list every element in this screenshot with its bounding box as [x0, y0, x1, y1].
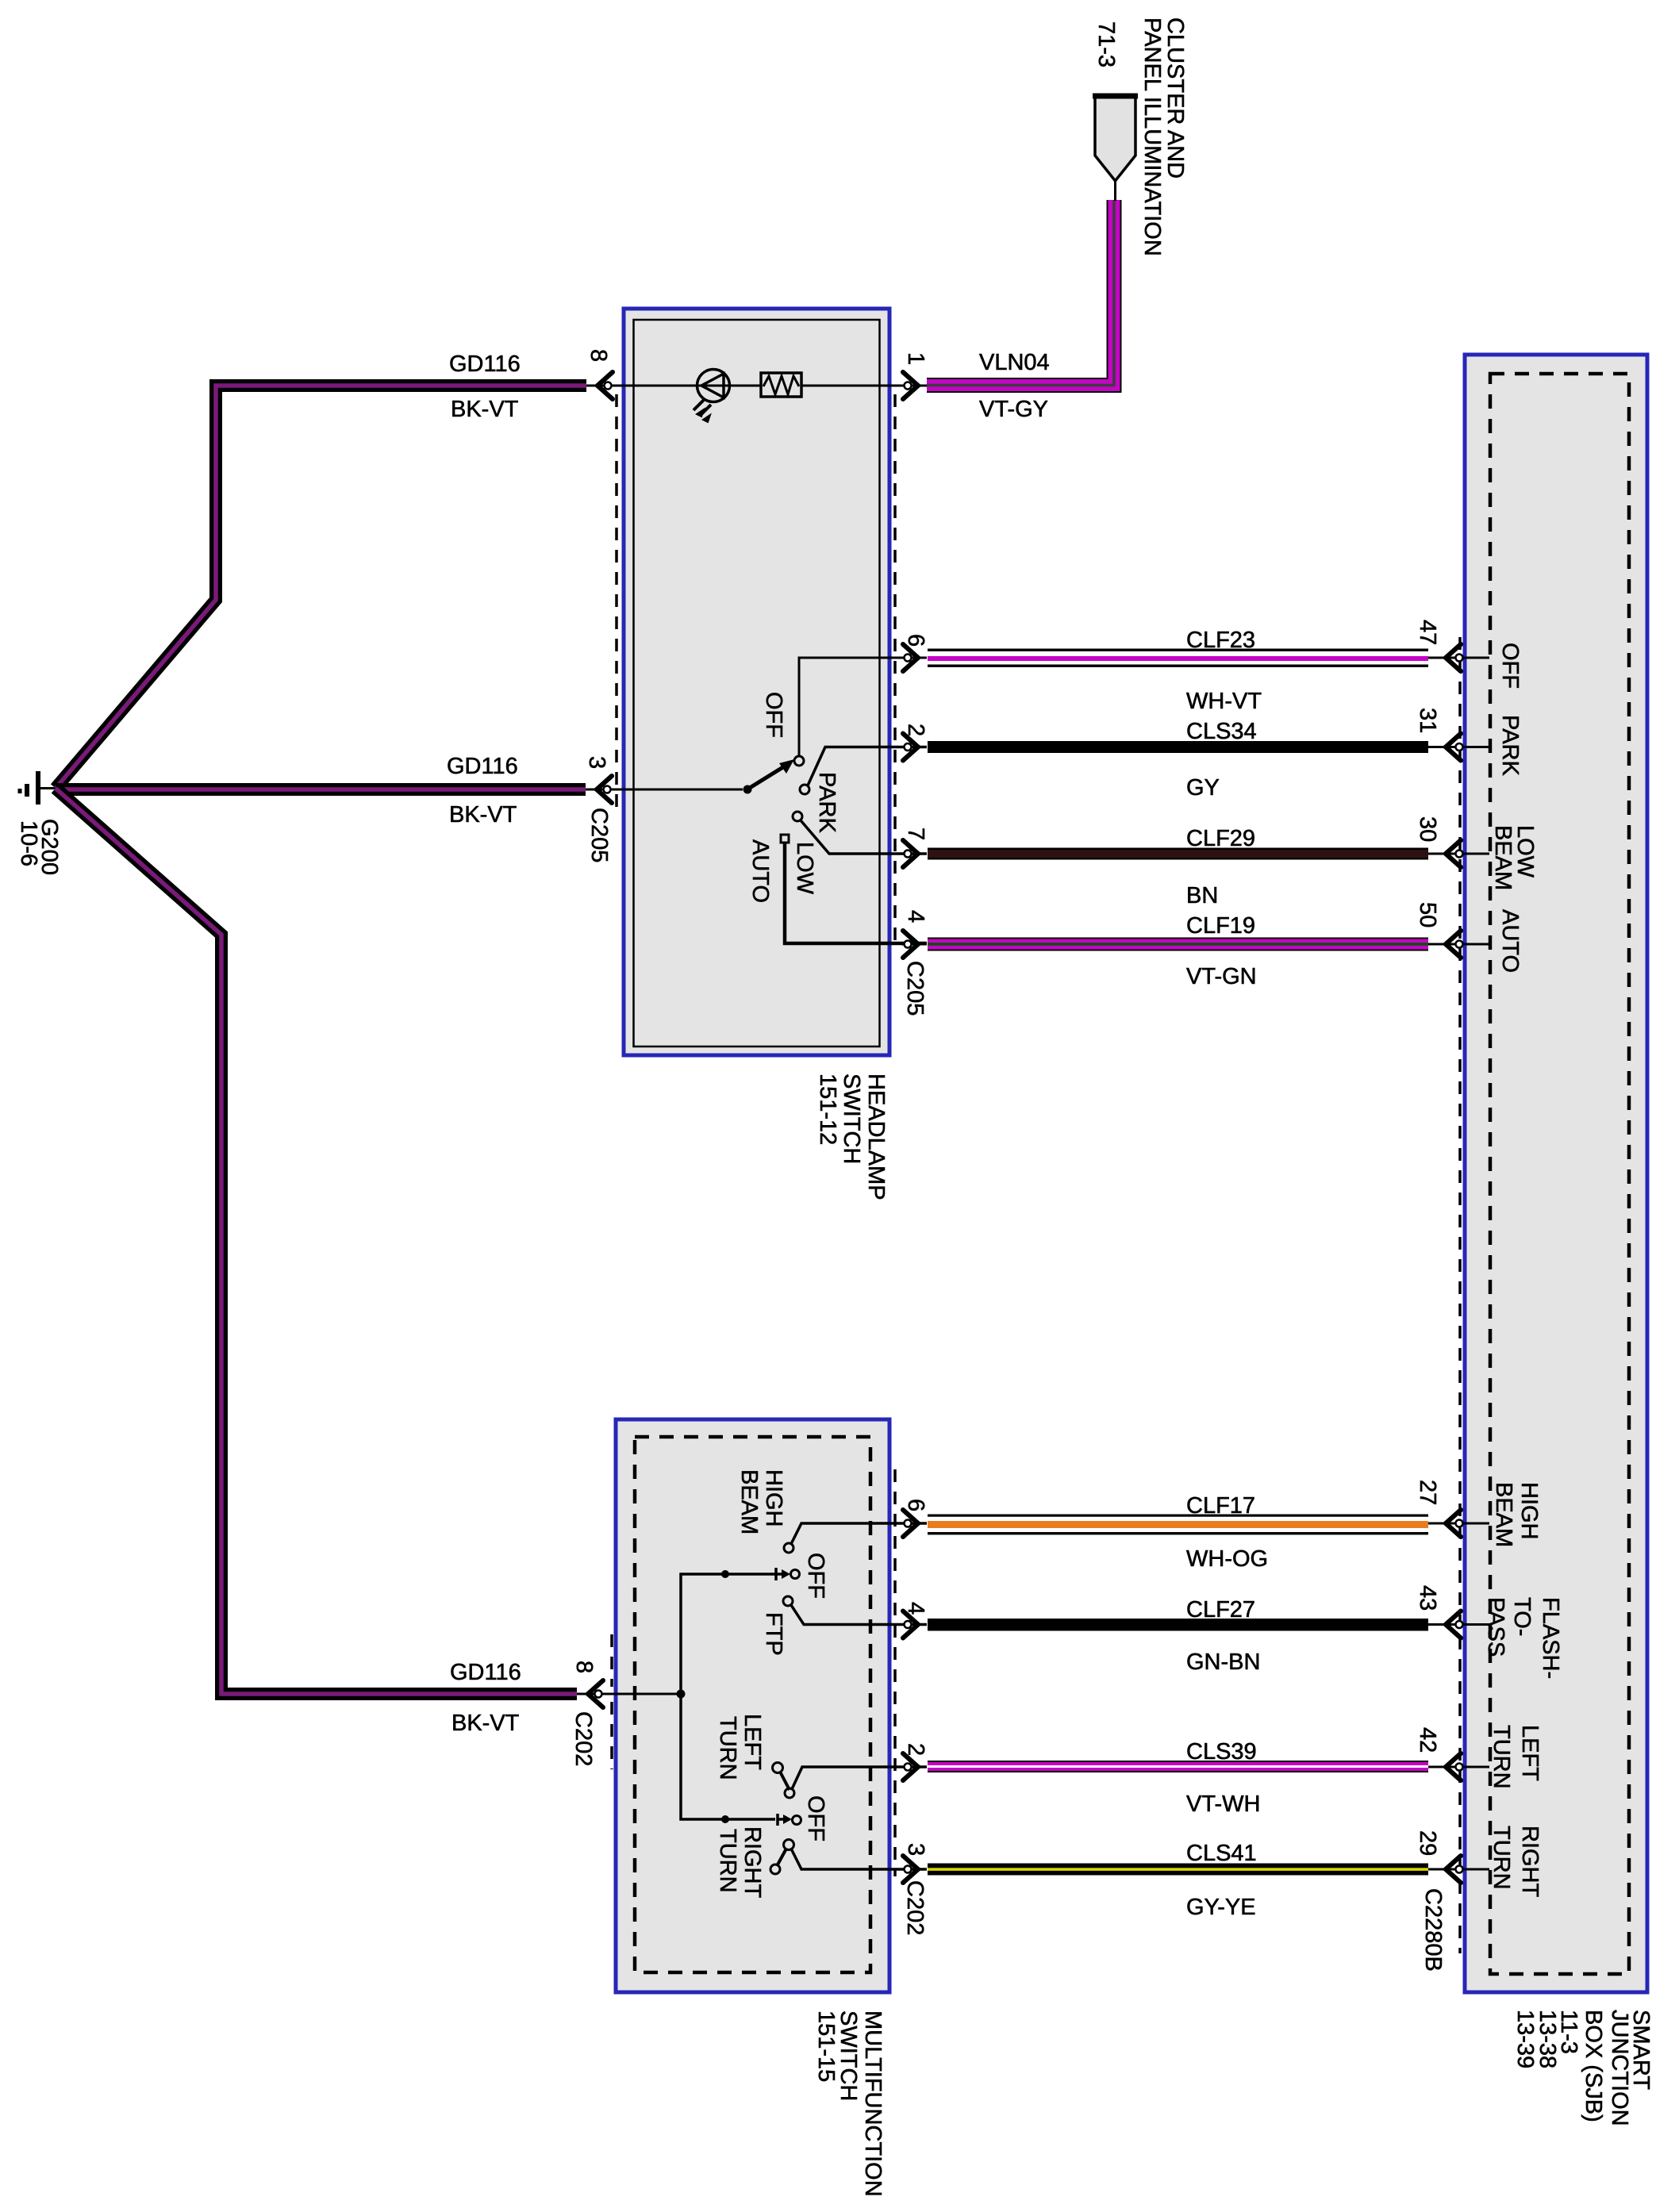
- AUTO contact headlamp switch: [781, 835, 789, 843]
- pin 6 multifunction switch (right): [901, 1510, 927, 1537]
- svg-text:71-3: 71-3: [1093, 21, 1119, 67]
- label HIGH BEAM: [736, 1469, 786, 1534]
- label OFF (SJB pin 47): [1497, 643, 1523, 689]
- svg-text:BEAM: BEAM: [736, 1469, 762, 1534]
- svg-text:TO-: TO-: [1509, 1597, 1535, 1636]
- blade (high beam switch, at OFF): [776, 1568, 790, 1580]
- svg-text:SWITCH: SWITCH: [839, 1073, 864, 1164]
- pin 7 label: [903, 828, 928, 840]
- label BK-VT (bottom): [451, 1711, 520, 1736]
- svg-text:PANEL ILLUMINATION: PANEL ILLUMINATION: [1139, 17, 1165, 256]
- svg-text:RIGHT: RIGHT: [740, 1826, 765, 1899]
- wire OFF contact to pin 6: [799, 658, 927, 756]
- label OFF (turn switch): [803, 1795, 828, 1841]
- pin 7 headlamp switch (right): [901, 840, 927, 867]
- label SMART JUNCTION BOX (SJB) 11-3 13-38 13-39: [1512, 2010, 1654, 2126]
- pin 8 label: [586, 349, 611, 362]
- pin 1 label: [903, 352, 928, 365]
- svg-text:HIGH: HIGH: [1516, 1482, 1542, 1540]
- label WH-VT: [1186, 689, 1262, 714]
- svg-text:WH-OG: WH-OG: [1186, 1546, 1268, 1572]
- svg-text:PARK: PARK: [814, 772, 839, 833]
- svg-text:4: 4: [903, 1602, 928, 1615]
- connector C202 dashed line (right side): [893, 1469, 897, 1876]
- svg-text:AUTO: AUTO: [747, 839, 773, 903]
- svg-text:50: 50: [1415, 902, 1440, 927]
- junction dot (trunk / turn common): [721, 1815, 729, 1823]
- svg-text:151-15: 151-15: [813, 2010, 839, 2082]
- svg-text:BN: BN: [1186, 883, 1218, 908]
- label AUTO (SJB pin 50): [1497, 909, 1523, 973]
- wire LOW contact to pin 7: [801, 820, 927, 854]
- label WH-OG: [1186, 1546, 1268, 1572]
- blade (turn switch, at OFF): [778, 1814, 792, 1826]
- pin 3 label: [584, 756, 609, 769]
- svg-text:TURN: TURN: [715, 1716, 740, 1780]
- pin 27 SJB: [1428, 1510, 1489, 1537]
- pin 50 SJB: [1428, 931, 1489, 958]
- label OFF (high beam switch): [803, 1553, 828, 1599]
- OFF contact (high beam switch): [791, 1570, 800, 1579]
- pin 4 label: [903, 910, 928, 923]
- svg-text:HEADLAMP: HEADLAMP: [863, 1073, 889, 1200]
- wire CLF29 BN (pin 7 to SJB 30): [928, 848, 1428, 860]
- pin 8 label (multifunction): [571, 1661, 597, 1673]
- RIGHT TURN contact multifunction switch: [784, 1840, 794, 1850]
- label OFF (headlamp switch): [761, 692, 786, 738]
- wire CLF19 VT-GN (pin 4 to SJB 50): [928, 938, 1428, 951]
- svg-text:BK-VT: BK-VT: [451, 1711, 520, 1736]
- svg-text:CLF23: CLF23: [1186, 628, 1255, 653]
- svg-text:C202: C202: [571, 1711, 596, 1766]
- svg-text:4: 4: [903, 910, 928, 923]
- svg-text:13-39: 13-39: [1512, 2010, 1538, 2068]
- svg-text:29: 29: [1415, 1830, 1440, 1856]
- pin 2 multifunction switch (right): [901, 1753, 927, 1780]
- wire CLS34 GY (pin 2 to SJB 31): [928, 741, 1428, 753]
- pin 6 label (multifunction): [903, 1499, 928, 1511]
- svg-text:43: 43: [1415, 1585, 1440, 1611]
- label GN-BN: [1186, 1649, 1260, 1675]
- svg-text:8: 8: [571, 1661, 597, 1673]
- svg-text:GY-YE: GY-YE: [1186, 1895, 1256, 1920]
- label CLF29: [1186, 826, 1255, 851]
- svg-text:42: 42: [1415, 1727, 1440, 1753]
- svg-text:PASS: PASS: [1483, 1597, 1508, 1657]
- svg-text:MULTIFUNCTION: MULTIFUNCTION: [860, 2010, 886, 2197]
- svg-text:TURN: TURN: [1489, 1725, 1514, 1789]
- svg-text:2: 2: [903, 1743, 928, 1756]
- svg-text:CLUSTER AND: CLUSTER AND: [1162, 17, 1188, 179]
- svg-text:BEAM: BEAM: [1491, 1482, 1516, 1547]
- HIGH BEAM contact multifunction switch: [784, 1543, 793, 1553]
- svg-text:6: 6: [903, 1499, 928, 1511]
- connector C2280B dashed line: [1458, 637, 1462, 1953]
- svg-text:2: 2: [903, 724, 928, 736]
- svg-text:31: 31: [1415, 708, 1440, 733]
- label CLF27: [1186, 1597, 1255, 1623]
- pin 2 headlamp switch (right): [901, 734, 927, 761]
- svg-text:RIGHT: RIGHT: [1517, 1826, 1543, 1898]
- connector to CLUSTER AND PANEL ILLUMINATION (71-3): [1093, 96, 1138, 201]
- connector label C202 (pin 3): [902, 1880, 928, 1935]
- label CLUSTER AND PANEL ILLUMINATION: [1139, 17, 1188, 256]
- label BK-VT (top): [451, 397, 519, 422]
- label MULTIFUNCTION SWITCH 151-15: [813, 2010, 886, 2197]
- wire CLS41 GY-YE (pin 3 to SJB 29): [928, 1864, 1428, 1876]
- pin 43 SJB: [1428, 1611, 1489, 1638]
- junction dot (trunk / high beam common): [721, 1570, 729, 1578]
- label GY-YE: [1186, 1895, 1256, 1920]
- label CLS39: [1186, 1739, 1257, 1765]
- ground G200 symbol: [20, 771, 57, 805]
- junction dot (trunk / pin 8): [677, 1690, 686, 1699]
- multifunction switch box 151-15: [616, 1419, 889, 1992]
- label AUTO (headlamp switch): [747, 839, 773, 903]
- pin 30 SJB: [1428, 840, 1489, 867]
- wire internal (pin 8 to pin 1 through lamp and resistor): [633, 385, 927, 387]
- svg-text:GN-BN: GN-BN: [1186, 1649, 1260, 1675]
- pin 3 headlamp switch: [586, 776, 743, 803]
- pin 1 headlamp switch: [903, 372, 918, 399]
- headlamp switch box 151-12: [624, 309, 889, 1055]
- svg-text:6: 6: [903, 634, 928, 647]
- label CLF23: [1186, 628, 1255, 653]
- svg-text:VT-GN: VT-GN: [1186, 964, 1257, 989]
- headlamp switch blade (to OFF): [749, 759, 794, 789]
- svg-text:27: 27: [1415, 1480, 1440, 1505]
- svg-text:CLS39: CLS39: [1186, 1739, 1257, 1765]
- svg-text:VT-WH: VT-WH: [1186, 1791, 1260, 1817]
- wire GD116 BK-VT middle (ground to headlamp switch pin 3): [56, 783, 586, 796]
- wire GD116 BK-VT upper trunk (ground to headlamp switch pin 8): [56, 386, 586, 789]
- label HEADLAMP SWITCH 151-12: [815, 1073, 889, 1200]
- smart junction box SJB: [1465, 355, 1647, 1992]
- label CLS41: [1186, 1841, 1257, 1866]
- OFF contact headlamp switch: [794, 756, 804, 766]
- pin 29 SJB: [1428, 1856, 1489, 1883]
- svg-text:OFF: OFF: [1497, 643, 1523, 689]
- svg-text:C2280B: C2280B: [1420, 1888, 1446, 1972]
- connector C205 dashed line (left side): [615, 394, 618, 809]
- wire CLS39 VT-WH (pin 2 to SJB 42): [928, 1761, 1428, 1772]
- svg-text:CLS34: CLS34: [1186, 719, 1257, 744]
- wire VLN04 VT-GY (pin 1 to cluster illumination): [927, 200, 1114, 386]
- connector label C2280B: [1420, 1888, 1446, 1972]
- svg-text:CLF19: CLF19: [1186, 913, 1255, 939]
- svg-text:OFF: OFF: [803, 1553, 828, 1599]
- connector label C205 (pin 3): [586, 808, 612, 862]
- svg-text:WH-VT: WH-VT: [1186, 689, 1262, 714]
- pin 4 multifunction switch (right): [901, 1611, 927, 1638]
- label CLS34: [1186, 719, 1257, 744]
- svg-text:TURN: TURN: [1489, 1826, 1514, 1890]
- LEFT TURN contact multifunction switch: [773, 1763, 783, 1773]
- svg-text:BK-VT: BK-VT: [449, 802, 517, 828]
- pin 4 headlamp switch (right): [901, 931, 927, 958]
- pin 31 label: [1415, 708, 1440, 733]
- label VT-GN: [1186, 964, 1257, 989]
- pin 47 label: [1415, 620, 1440, 645]
- svg-text:GD116: GD116: [449, 351, 521, 377]
- wire HIGH BEAM contact to pin 6: [791, 1523, 927, 1544]
- svg-text:C202: C202: [902, 1880, 928, 1935]
- label VT-WH: [1186, 1791, 1260, 1817]
- pin 29 label: [1415, 1830, 1440, 1856]
- wire CLF23 WH-VT (pin 6 to SJB 47): [928, 649, 1428, 667]
- label GD116 (middle): [447, 754, 518, 779]
- svg-text:FTP: FTP: [761, 1612, 786, 1656]
- svg-text:151-12: 151-12: [815, 1073, 840, 1145]
- svg-text:JUNCTION: JUNCTION: [1607, 2010, 1632, 2126]
- svg-text:LEFT: LEFT: [1517, 1725, 1543, 1781]
- pin 42 SJB: [1428, 1753, 1489, 1780]
- label PASS (SJB pin 43): [1483, 1597, 1508, 1657]
- svg-text:VLN04: VLN04: [979, 350, 1050, 375]
- svg-text:AUTO: AUTO: [1497, 909, 1523, 973]
- pin 50 label: [1415, 902, 1440, 927]
- pin 30 label: [1415, 816, 1440, 842]
- svg-text:BEAM: BEAM: [1490, 825, 1516, 890]
- svg-text:C205: C205: [586, 808, 612, 862]
- label CLF19: [1186, 913, 1255, 939]
- wire PARK contact to pin 2: [808, 747, 927, 786]
- label LEFT (SJB pin 42): [1517, 1725, 1543, 1781]
- label LOW (headlamp switch): [792, 842, 817, 895]
- svg-text:GD116: GD116: [450, 1660, 521, 1685]
- pin 3 label (multifunction): [903, 1843, 928, 1856]
- label LOW (SJB pin 30): [1512, 825, 1538, 878]
- svg-text:8: 8: [586, 349, 611, 362]
- svg-text:C205: C205: [902, 961, 928, 1016]
- svg-text:3: 3: [584, 756, 609, 769]
- pin 3 multifunction switch (right): [901, 1856, 927, 1883]
- label LEFT TURN: [715, 1714, 765, 1780]
- indicator lamp (panel illumination): [693, 370, 730, 423]
- svg-text:GD116: GD116: [447, 754, 518, 779]
- PARK contact headlamp switch: [800, 785, 809, 794]
- label BEAM (SJB pin 30): [1490, 825, 1516, 890]
- label 71-3: [1093, 21, 1119, 67]
- wire FTP contact to pin 4: [791, 1605, 927, 1625]
- label PARK (SJB pin 31): [1497, 715, 1523, 776]
- ground label G200 10-6: [16, 819, 62, 875]
- label RIGHT (SJB pin 29): [1517, 1826, 1543, 1898]
- connector label C205 (pin 4): [902, 961, 928, 1016]
- pin 27 label: [1415, 1480, 1440, 1505]
- svg-text:1: 1: [903, 352, 928, 365]
- pin 6 label: [903, 634, 928, 647]
- wire internal trunk (pin 8 common): [681, 1574, 775, 1819]
- wire LEFT TURN contact to pin 2: [780, 1767, 927, 1798]
- wire GD116 BK-VT lower trunk (ground to multifunction switch pin 8): [56, 789, 577, 1695]
- wire CLF17 WH-OG (pin 6 to SJB 27): [928, 1515, 1428, 1535]
- svg-text:PARK: PARK: [1497, 715, 1523, 776]
- headlamp switch common pivot: [743, 785, 752, 794]
- pin 47 SJB: [1428, 644, 1489, 671]
- label TURN (SJB pin 29): [1489, 1826, 1514, 1890]
- svg-text:OFF: OFF: [803, 1795, 828, 1841]
- connector label C202 (pin 8): [571, 1711, 596, 1766]
- connector C202 dashed line (left side): [610, 1634, 613, 1769]
- svg-text:BOX (SJB): BOX (SJB): [1581, 2010, 1606, 2122]
- svg-text:3: 3: [903, 1843, 928, 1856]
- label GY: [1186, 775, 1220, 801]
- label GD116 (top): [449, 351, 521, 377]
- svg-text:CLF17: CLF17: [1186, 1493, 1255, 1519]
- wire CLF27 GN-BN (pin 4 to SJB 43): [928, 1619, 1428, 1631]
- svg-text:FLASH-: FLASH-: [1538, 1597, 1563, 1679]
- label CLF17: [1186, 1493, 1255, 1519]
- OFF contact (turn switch): [793, 1816, 801, 1825]
- svg-text:47: 47: [1415, 620, 1440, 645]
- label GD116 (bottom): [450, 1660, 521, 1685]
- svg-text:OFF: OFF: [761, 692, 786, 738]
- FTP contact multifunction switch: [783, 1596, 793, 1606]
- svg-text:BK-VT: BK-VT: [451, 397, 519, 422]
- svg-text:7: 7: [903, 828, 928, 840]
- label TO- (SJB pin 43): [1509, 1597, 1535, 1636]
- pin 42 label: [1415, 1727, 1440, 1753]
- wire AUTO contact to pin 4: [785, 843, 927, 943]
- svg-text:CLF27: CLF27: [1186, 1597, 1255, 1623]
- label FTP: [761, 1612, 786, 1656]
- label BEAM (SJB pin 27): [1491, 1482, 1516, 1547]
- svg-text:GY: GY: [1186, 775, 1220, 801]
- svg-text:CLF29: CLF29: [1186, 826, 1255, 851]
- pin 2 label (multifunction): [903, 1743, 928, 1756]
- label TURN (SJB pin 42): [1489, 1725, 1514, 1789]
- label PARK (headlamp switch): [814, 772, 839, 833]
- svg-text:10-6: 10-6: [16, 820, 41, 866]
- pin 8 headlamp switch: [586, 372, 633, 399]
- svg-text:LOW: LOW: [792, 842, 817, 895]
- pin 2 label: [903, 724, 928, 736]
- svg-text:LEFT: LEFT: [740, 1714, 765, 1770]
- label BK-VT (middle): [449, 802, 517, 828]
- label VLN04: [979, 350, 1050, 375]
- label FLASH- (SJB pin 43): [1538, 1597, 1563, 1679]
- svg-text:HIGH: HIGH: [761, 1469, 786, 1527]
- svg-text:VT-GY: VT-GY: [979, 397, 1048, 422]
- pin 31 SJB: [1428, 734, 1489, 761]
- LOW contact headlamp switch: [793, 812, 802, 821]
- wire RIGHT TURN contact to pin 3: [770, 1849, 927, 1874]
- pin 4 label (multifunction): [903, 1602, 928, 1615]
- pin 8 multifunction switch: [577, 1680, 681, 1707]
- svg-text:CLS41: CLS41: [1186, 1841, 1257, 1866]
- label RIGHT TURN: [715, 1826, 765, 1899]
- pin 6 headlamp switch (right): [901, 644, 927, 671]
- connector C205 dashed line (right side): [893, 394, 897, 948]
- pin 43 label: [1415, 1585, 1440, 1611]
- svg-text:TURN: TURN: [715, 1829, 740, 1893]
- label VT-GY: [979, 397, 1048, 422]
- resistor (illumination dimmer): [761, 373, 801, 397]
- label HIGH (SJB pin 27): [1516, 1482, 1542, 1540]
- label BN: [1186, 883, 1218, 908]
- svg-text:30: 30: [1415, 816, 1440, 842]
